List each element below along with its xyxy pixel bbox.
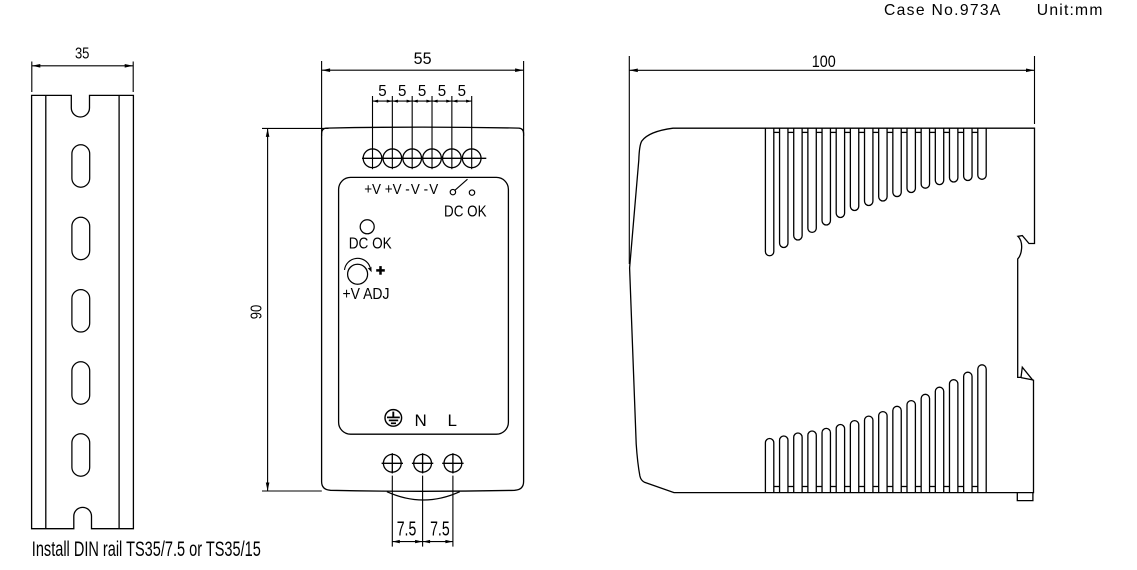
svg-text:DC OK: DC OK: [444, 204, 487, 221]
svg-text:DC OK: DC OK: [349, 236, 392, 253]
svg-text:100: 100: [812, 52, 836, 71]
svg-text:7.5: 7.5: [430, 518, 450, 541]
svg-text:+V ADJ: +V ADJ: [343, 286, 390, 303]
svg-text:5: 5: [438, 83, 446, 100]
svg-text:35: 35: [75, 46, 90, 63]
svg-text:N: N: [415, 411, 427, 430]
svg-text:5: 5: [458, 83, 466, 100]
svg-text:5: 5: [378, 83, 386, 100]
svg-text:Case No.973A: Case No.973A: [884, 2, 1001, 19]
svg-text:5: 5: [418, 83, 426, 100]
svg-text:5: 5: [398, 83, 406, 100]
svg-text:L: L: [447, 411, 456, 430]
svg-text:55: 55: [414, 49, 432, 68]
svg-text:90: 90: [248, 304, 265, 319]
svg-text:Install DIN rail TS35/7.5 or T: Install DIN rail TS35/7.5 or TS35/15: [32, 538, 261, 561]
svg-text:+V +V - V - V: +V +V - V - V: [364, 182, 438, 198]
svg-text:7.5: 7.5: [397, 518, 417, 541]
svg-text:Unit:mm: Unit:mm: [1037, 2, 1103, 19]
